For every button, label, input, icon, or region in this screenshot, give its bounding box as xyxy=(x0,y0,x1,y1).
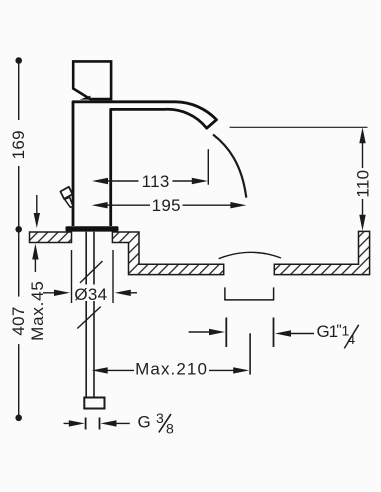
svg-text:Ø34: Ø34 xyxy=(74,285,107,304)
svg-text:Max.210: Max.210 xyxy=(135,360,208,379)
svg-text:195: 195 xyxy=(152,196,181,215)
svg-text:3: 3 xyxy=(156,410,164,426)
svg-text:407: 407 xyxy=(9,306,28,335)
svg-text:G: G xyxy=(138,413,151,432)
svg-text:110: 110 xyxy=(353,170,372,198)
svg-text:Max.45: Max.45 xyxy=(28,280,47,341)
svg-text:113: 113 xyxy=(142,172,170,191)
svg-text:4: 4 xyxy=(347,331,355,347)
svg-text:8: 8 xyxy=(166,421,174,437)
svg-text:169: 169 xyxy=(9,130,28,159)
